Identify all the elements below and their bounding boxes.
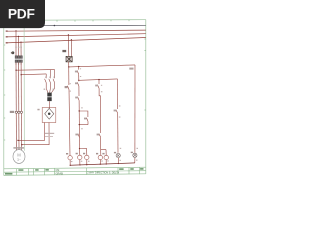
brake return wires	[18, 123, 49, 145]
svg-text:M: M	[17, 153, 21, 158]
coil pair split	[80, 147, 87, 149]
control rail 1	[69, 65, 135, 67]
tap wire 2 from phase 3	[21, 73, 46, 76]
node on N rail	[54, 25, 56, 27]
node rail1 branchB	[78, 66, 79, 67]
branch B lower contact	[78, 134, 80, 138]
title block texts	[5, 168, 144, 174]
breaker Q1 tag	[12, 51, 15, 54]
coil A (K from branch A)	[68, 156, 72, 160]
node L3 tap	[20, 41, 21, 42]
fuse F1 tag	[62, 50, 66, 52]
branch F from rail1 corner	[134, 65, 136, 153]
coil K1	[78, 155, 82, 159]
svg-text:3~: 3~	[17, 158, 21, 162]
left power branch verticals (upper)	[16, 31, 21, 56]
branch D sub split	[101, 149, 106, 151]
control fuse taps	[67, 35, 69, 57]
misc pin marks	[71, 91, 138, 162]
terminal tag	[10, 111, 14, 113]
fuse F1	[66, 56, 72, 62]
transformer T1 winding	[47, 93, 51, 97]
holding contact tag	[84, 118, 87, 120]
rail L1	[6, 30, 146, 31]
node inside diamond	[48, 113, 51, 116]
lamp H2	[133, 153, 137, 157]
rail nodes	[70, 165, 71, 166]
control rail 2	[79, 79, 118, 80]
svg-text:PDF: PDF	[8, 6, 35, 21]
node fuse tap L2	[68, 34, 69, 35]
contact pin specks	[70, 68, 103, 91]
lamp H1	[116, 153, 120, 157]
branch E from rail2 corner	[116, 79, 118, 153]
node branch D	[98, 79, 99, 80]
K2 pin marks	[45, 77, 55, 78]
motor M1	[13, 150, 25, 164]
svg-text:GRAB: GRAB	[56, 172, 64, 176]
S0 tag	[65, 86, 68, 88]
node return1	[17, 140, 18, 141]
title block lines	[4, 167, 146, 175]
rectifier diamond	[45, 108, 54, 119]
tap wire 1 from phase 1	[16, 69, 55, 72]
breaker Q1 poles	[15, 56, 22, 59]
node rail2 start	[78, 80, 79, 81]
node return2	[21, 144, 22, 145]
rail L3	[6, 38, 146, 43]
coil K4	[104, 155, 108, 159]
branch D from rail2	[97, 80, 100, 156]
leads into brake device	[46, 88, 54, 92]
bottom control rail	[70, 163, 135, 165]
contactor K2 contact b	[49, 70, 51, 89]
branch F tag	[129, 68, 133, 70]
border reference ticks	[4, 20, 146, 140]
node loop bottom	[79, 124, 80, 125]
motor pin labels	[13, 147, 24, 148]
PDF badge	[0, 0, 45, 28]
control branch A vertical	[67, 62, 70, 156]
diamond tag mark	[37, 109, 39, 111]
node coil split	[79, 148, 80, 149]
pin labels below F2	[15, 63, 21, 64]
coil K3	[98, 155, 102, 159]
rail left end arrows	[6, 31, 8, 44]
pin labels above corners	[45, 133, 55, 134]
overload F2 poles	[15, 60, 22, 63]
node loop top	[79, 110, 80, 111]
parallel holding contact loop	[79, 111, 88, 125]
coil K1T	[85, 155, 89, 159]
node L1 tap	[15, 30, 16, 31]
rail N (dark)	[6, 24, 146, 27]
node fuse tap L3	[71, 39, 72, 40]
node L2 tap	[18, 36, 19, 37]
PE green conductor	[23, 21, 25, 151]
rectifier loop box	[42, 108, 56, 123]
svg-text:CM: CM	[56, 169, 60, 172]
contactor K2 contact a	[45, 74, 47, 88]
branch B contact tags	[75, 71, 78, 73]
pin labels above Q1	[15, 47, 21, 48]
branch B stack	[77, 67, 79, 149]
contactor K2 contact c	[53, 70, 55, 89]
motor terminal X1 circles	[15, 111, 22, 113]
svg-text:2 WAY DIRECTION S. DELTA: 2 WAY DIRECTION S. DELTA	[87, 172, 119, 175]
node tap2	[21, 74, 22, 75]
page frame border	[4, 20, 146, 176]
left power branch verticals (lower)	[16, 62, 22, 150]
brake pin marks	[44, 89, 55, 90]
node tap1	[15, 70, 16, 71]
rail L2	[6, 34, 146, 37]
node rail1 corner	[68, 66, 69, 67]
coil tag marks	[66, 152, 133, 155]
